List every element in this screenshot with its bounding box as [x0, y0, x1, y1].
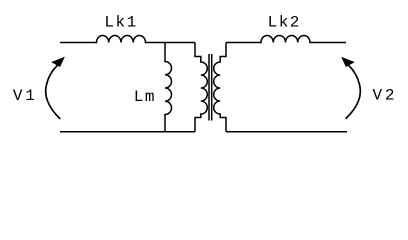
wire top-right with inductor Lk2: [226, 36, 346, 43]
transformer primary winding: [195, 43, 207, 132]
inductor Lm: [165, 43, 172, 132]
wire bottom-right: [226, 131, 347, 133]
arrow V1: [46, 57, 65, 119]
svg-text:V2: V2: [373, 87, 398, 105]
transformer secondary winding: [214, 43, 226, 132]
transformer core: [209, 54, 212, 121]
svg-text:Lk1: Lk1: [104, 14, 137, 32]
wire top-left with inductor Lk1: [60, 36, 195, 43]
wire bottom-left: [60, 131, 195, 133]
svg-text:V1: V1: [13, 87, 38, 105]
svg-text:Lm: Lm: [134, 88, 156, 106]
svg-text:Lk2: Lk2: [268, 14, 301, 32]
arrow V2: [341, 57, 360, 119]
